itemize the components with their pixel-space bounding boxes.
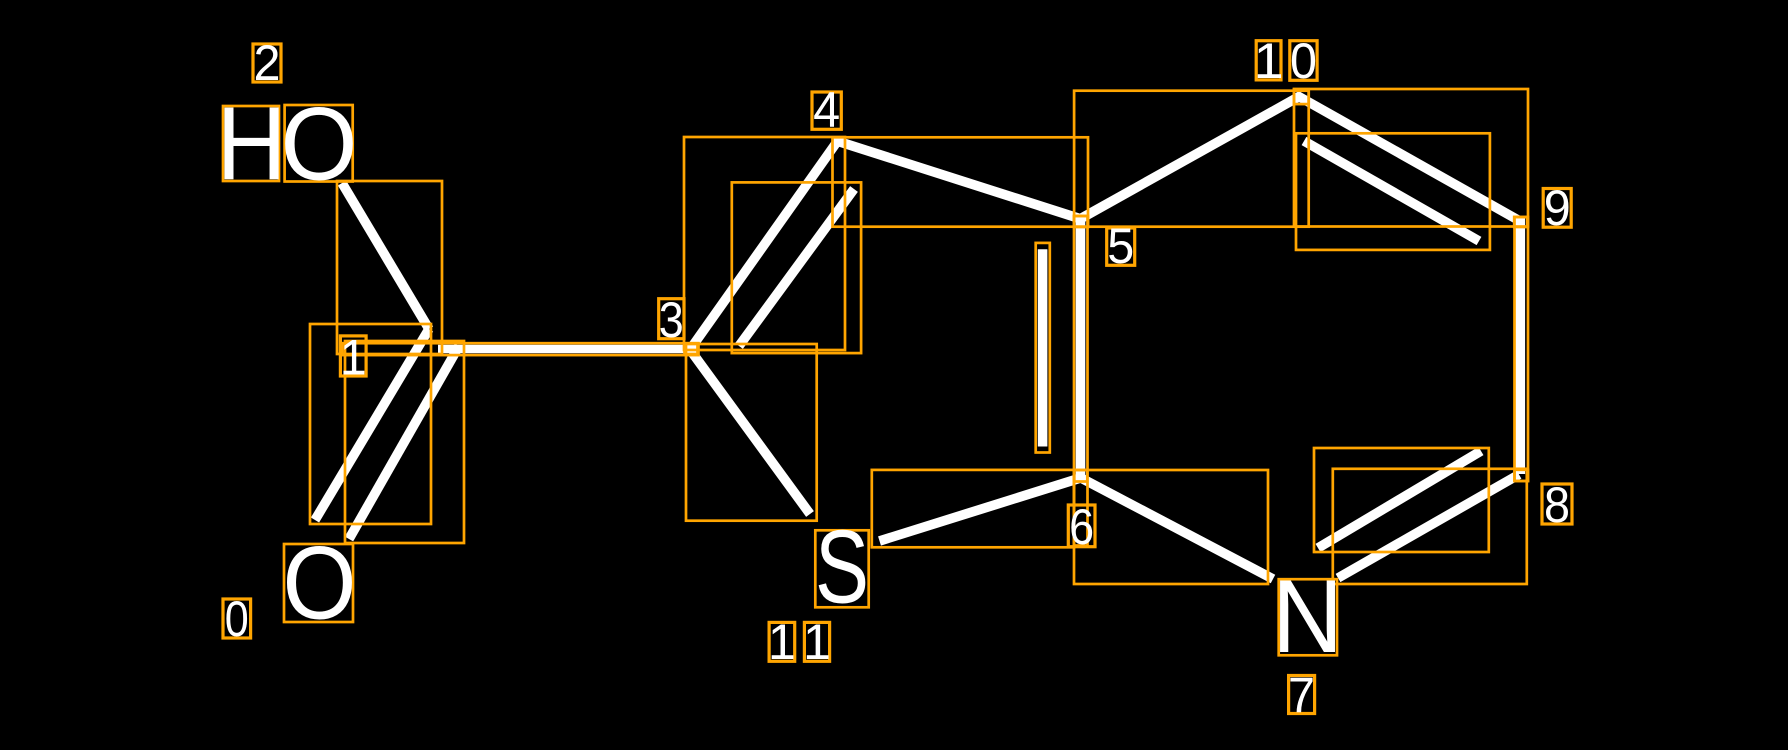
box index 3 bbox=[659, 299, 684, 339]
box atom C9 bbox=[1514, 217, 1527, 227]
box bond C1-C3 bbox=[343, 343, 699, 355]
wire bond C1=O0 line B bbox=[349, 346, 459, 539]
box bond C3-S11 bbox=[686, 344, 817, 521]
wire bond O2-C1 bbox=[342, 183, 429, 329]
box index 6 bbox=[1068, 505, 1095, 547]
svg-text:8: 8 bbox=[1544, 477, 1570, 533]
box atom C5 bbox=[1074, 216, 1088, 227]
svg-text:0: 0 bbox=[225, 591, 249, 647]
box atom C1 (index label 1) bbox=[340, 336, 366, 376]
box atom H bbox=[223, 106, 279, 181]
box bond O2-C1 bbox=[337, 181, 442, 354]
svg-text:4: 4 bbox=[813, 82, 840, 138]
wire bond C6-S11 bbox=[880, 478, 1083, 542]
box bond N7=C8 inner bbox=[1314, 448, 1489, 552]
wire bond C10=C9 main bbox=[1297, 96, 1519, 221]
svg-text:1: 1 bbox=[768, 614, 796, 670]
svg-text:9: 9 bbox=[1544, 180, 1571, 236]
box bond C4-C5 bbox=[833, 137, 1089, 226]
wire bond C5-C10 bbox=[1080, 96, 1301, 220]
svg-text:H: H bbox=[217, 86, 287, 202]
box index 8 bbox=[1542, 484, 1572, 524]
wire bond N7=C8 inner bbox=[1318, 451, 1481, 548]
svg-text:1: 1 bbox=[803, 614, 831, 670]
svg-text:N: N bbox=[1272, 559, 1343, 675]
box atom O2 bbox=[285, 105, 353, 182]
wire bond C1=O0 line A bbox=[315, 329, 429, 520]
box bond C9-C8 bbox=[1515, 217, 1529, 481]
wire bond C3=C4 main bbox=[689, 139, 839, 351]
box atom O0 bbox=[284, 544, 353, 622]
box index 4 bbox=[812, 92, 841, 129]
wire bond C6-N7 bbox=[1082, 479, 1273, 580]
wire bond C9-C8 bbox=[1516, 218, 1526, 474]
svg-text:1: 1 bbox=[340, 330, 367, 386]
svg-text:1: 1 bbox=[1254, 33, 1284, 89]
box index 10 digit 1 bbox=[1256, 41, 1281, 80]
box bond C6-N7 bbox=[1074, 470, 1268, 584]
box index 11 digit 1 bbox=[769, 622, 795, 661]
wire bond C4-C5 bbox=[837, 141, 1081, 219]
svg-text:O: O bbox=[281, 87, 358, 203]
box bond C5-C10 bbox=[1074, 91, 1309, 227]
box bond C6-S11 bbox=[872, 470, 1074, 547]
box index 0 bbox=[223, 599, 251, 638]
box bond C10=C9 inner bbox=[1296, 133, 1490, 250]
box atom C10 bbox=[1294, 89, 1309, 104]
wire bond C3-S11 bbox=[691, 351, 810, 514]
box bond C5=C6 main bbox=[1074, 216, 1088, 546]
box bond C1=O0 line A bbox=[310, 324, 431, 524]
box atom N7 bbox=[1279, 579, 1337, 655]
svg-text:6: 6 bbox=[1069, 499, 1094, 555]
box bond C5=C6 inner bbox=[1036, 243, 1050, 453]
svg-text:0: 0 bbox=[1290, 33, 1317, 89]
svg-text:S: S bbox=[815, 510, 869, 626]
wire bond C5=C6 main bbox=[1076, 218, 1086, 479]
wire bond C5=C6 inner bbox=[1038, 249, 1048, 446]
box atom C8 bbox=[1515, 470, 1529, 481]
box bond C3=C4 inner bbox=[732, 182, 861, 353]
wire bond C3=C4 inner bbox=[739, 189, 854, 346]
svg-text:2: 2 bbox=[254, 35, 281, 91]
wire bond N7=C8 main bbox=[1338, 475, 1519, 579]
box atom C6 bbox=[1074, 470, 1087, 482]
box bond C10=C9 main bbox=[1294, 89, 1528, 227]
box index 10 digit 0 bbox=[1290, 41, 1317, 81]
box atom C3 bbox=[685, 343, 698, 354]
box bond C3=C4 main bbox=[684, 137, 845, 350]
wire bond C10=C9 inner bbox=[1304, 141, 1479, 241]
box bond C1=O0 line B bbox=[345, 341, 464, 543]
svg-text:O: O bbox=[283, 526, 357, 642]
svg-text:7: 7 bbox=[1288, 668, 1315, 724]
box index 2 bbox=[253, 44, 281, 82]
box index 9 bbox=[1543, 189, 1571, 228]
box index 7 bbox=[1289, 676, 1315, 714]
box bond N7=C8 main bbox=[1333, 469, 1527, 584]
wire bond C1-C3 bbox=[438, 345, 695, 354]
box atom S11 bbox=[815, 530, 868, 607]
box index 5 bbox=[1107, 228, 1135, 265]
svg-text:3: 3 bbox=[659, 292, 684, 348]
box index 11 digit 1b bbox=[804, 622, 829, 661]
svg-text:5: 5 bbox=[1107, 218, 1134, 274]
